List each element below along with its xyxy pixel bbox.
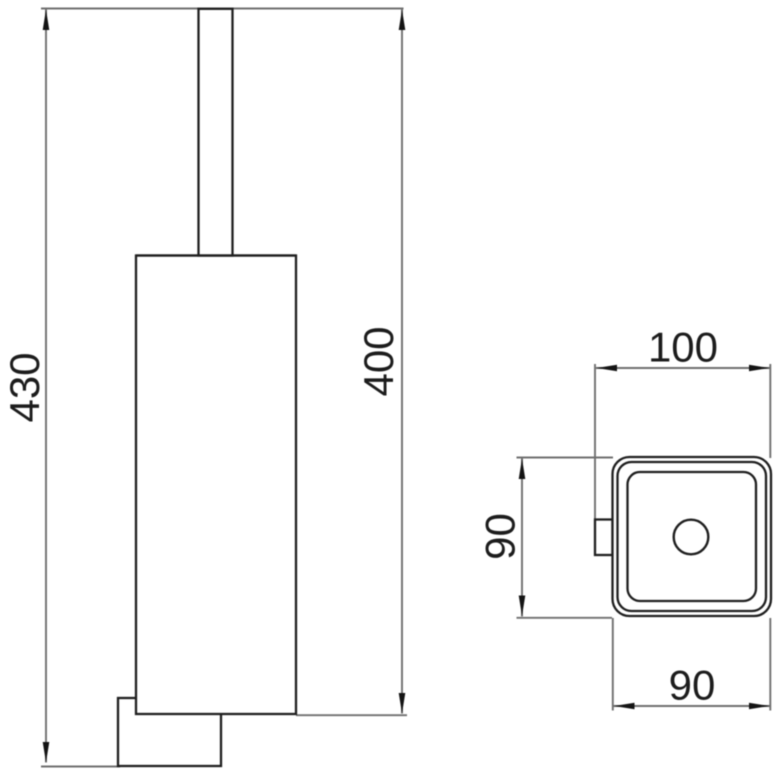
arrowhead 400 bottom xyxy=(399,693,406,714)
arrowhead 90-left bottom xyxy=(519,596,526,617)
dimension line 100 xyxy=(596,367,770,369)
extension line 90-left bottom xyxy=(517,617,613,619)
arrowhead 90-bottom right xyxy=(749,703,770,710)
svg-text:400: 400 xyxy=(355,326,402,396)
extension line at bracket bottom (430 datum) xyxy=(41,766,120,768)
dimension line 90 bottom xyxy=(614,705,770,707)
holder body (front view) xyxy=(136,256,296,715)
svg-text:90: 90 xyxy=(669,662,716,709)
arrowhead 100 right xyxy=(749,365,770,372)
arrowhead 90-bottom left xyxy=(614,703,635,710)
brush handle hole (top view circle) xyxy=(674,520,709,555)
arrowhead 430 bottom xyxy=(43,742,50,763)
body top edge continuous under handle xyxy=(136,254,296,256)
wall bracket (front view, lower left) xyxy=(118,698,221,766)
extension line 90-bottom left xyxy=(612,618,614,711)
brush handle (front view) xyxy=(199,9,233,256)
extension line 100/90 right xyxy=(769,364,771,458)
arrowhead 400 top xyxy=(399,10,406,31)
arrowhead 430 top xyxy=(43,10,50,31)
svg-text:430: 430 xyxy=(1,352,48,422)
holder inner wall (top view) xyxy=(628,472,757,601)
dimension line 90 left xyxy=(521,458,523,617)
mounting tab (top view, left side) xyxy=(595,520,613,556)
arrowhead 90-left top xyxy=(519,459,526,480)
holder wall middle line (top view) xyxy=(618,462,767,611)
extension line 100 left (drops to mounting tab) xyxy=(594,364,596,520)
extension line 90-left top xyxy=(517,457,614,459)
dimension line 430 xyxy=(45,9,47,763)
svg-text:90: 90 xyxy=(477,513,524,560)
top extension line (overall height datum) xyxy=(41,8,404,10)
holder outer wall (top view) xyxy=(613,457,772,616)
extension line 90-bottom right xyxy=(769,618,771,711)
dimension line 400 xyxy=(401,9,403,714)
arrowhead 100 left xyxy=(597,365,618,372)
extension line at body bottom (400 datum) xyxy=(296,714,407,716)
svg-text:100: 100 xyxy=(648,324,718,371)
